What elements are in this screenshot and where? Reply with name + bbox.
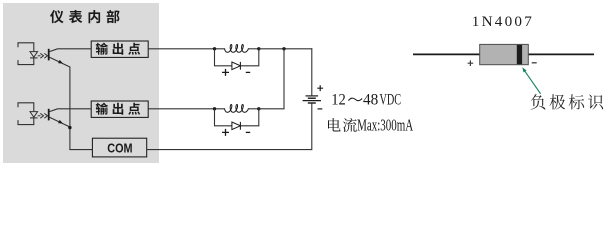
diode package body 1N4007 xyxy=(480,44,529,64)
wire Q1 collector to OUT1 box xyxy=(58,48,92,50)
junction dot tie of circuit 2 riser xyxy=(282,47,285,50)
wire OUT1 box to relay coil L1 xyxy=(148,48,224,50)
svg-text:COM: COM xyxy=(107,141,132,156)
wire coil L2 right lead xyxy=(249,108,259,110)
wire battery negative to COM rail xyxy=(147,104,312,150)
battery + label xyxy=(317,85,323,91)
svg-text:48: 48 xyxy=(363,92,378,109)
wire emitter bus vertical xyxy=(69,67,71,150)
diode package cathode lead wire xyxy=(528,53,594,55)
relay coil L1 xyxy=(225,45,249,53)
battery BT1 plates xyxy=(303,96,321,103)
wire OUT2 box to relay coil L2 xyxy=(148,108,224,110)
wire bus to COM box xyxy=(69,149,92,151)
wire flyback diode D3 cathode branch xyxy=(240,49,258,66)
optocoupler U1 LED anode lead xyxy=(18,43,34,52)
optocoupler U2 LED anode lead xyxy=(18,103,34,112)
wire battery positive drop xyxy=(311,48,313,95)
terminal box OUT1 输出点 xyxy=(91,41,148,57)
svg-text:Max:300mA: Max:300mA xyxy=(357,115,413,134)
wire Q2 collector to OUT2 box xyxy=(58,108,92,110)
junction dot emitter bus / U2 emitter xyxy=(68,126,71,129)
optocoupler U1 light arrows xyxy=(38,53,48,58)
polarity + at anode xyxy=(468,60,474,66)
optocoupler U2 LED D2 xyxy=(30,112,38,118)
svg-text:1N4007: 1N4007 xyxy=(472,13,532,30)
optocoupler U2 phototransistor Q2 collector xyxy=(50,109,58,112)
terminal box OUT2 输出点 xyxy=(91,101,148,117)
cathode band marking xyxy=(517,45,522,64)
wire flyback diode D3 anode branch xyxy=(215,49,232,66)
junction dot left of L1 xyxy=(213,47,216,50)
wire coil L1 right lead xyxy=(249,48,259,50)
svg-text:VDC: VDC xyxy=(380,92,402,109)
battery - label xyxy=(318,108,323,110)
optocoupler U2 phototransistor Q2 base bar xyxy=(48,109,50,121)
polarity label - for D3 xyxy=(246,71,250,73)
relay coil L2 xyxy=(225,105,249,113)
polarity label + for D3 xyxy=(222,69,229,76)
label 电流Max:300mA xyxy=(328,118,357,132)
polarity - at cathode xyxy=(532,62,537,64)
diode package anode lead wire xyxy=(413,53,480,55)
polarity label - for D4 xyxy=(246,131,250,133)
label 负极标识 xyxy=(531,94,603,109)
optocoupler U2 phototransistor Q2 emitter with arrow xyxy=(50,117,70,127)
junction dot left of L2 xyxy=(213,107,216,110)
optocoupler U1 LED D1 xyxy=(30,52,38,58)
instrument internal panel 仪表内部 xyxy=(3,3,159,163)
arrow pointing to cathode band xyxy=(522,67,540,94)
optocoupler U2 light arrows xyxy=(38,113,48,118)
wire circuit1 to battery corner xyxy=(259,48,313,50)
panel title 仪表内部 xyxy=(50,10,119,23)
terminal box COM xyxy=(92,138,146,157)
optocoupler U1 phototransistor Q1 emitter with arrow xyxy=(50,57,70,67)
junction dot right of L1 xyxy=(257,47,260,50)
flyback diode D4 xyxy=(232,122,241,130)
optocoupler U1 phototransistor Q1 collector xyxy=(50,49,58,52)
wire circuit2 riser xyxy=(259,49,284,109)
svg-text:12: 12 xyxy=(331,92,346,109)
flyback diode D3 xyxy=(232,62,241,70)
optocoupler U2 LED cathode lead xyxy=(18,118,34,125)
polarity label + for D4 xyxy=(222,129,229,136)
optocoupler U1 LED cathode lead xyxy=(18,58,34,65)
optocoupler U1 phototransistor Q1 base bar xyxy=(48,49,50,61)
wire flyback diode D4 anode branch xyxy=(215,109,232,126)
wire flyback diode D4 cathode branch xyxy=(240,109,258,126)
junction dot right of L2 xyxy=(257,107,260,110)
